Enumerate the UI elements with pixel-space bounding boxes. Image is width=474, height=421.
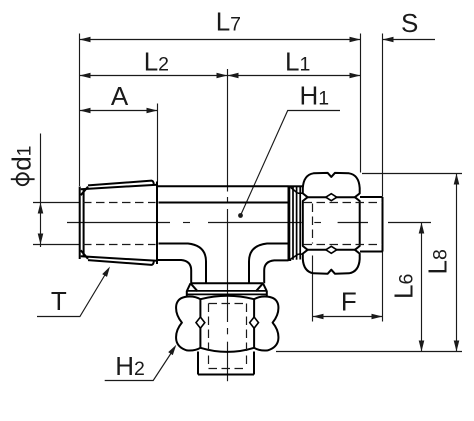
svg-text:A: A: [111, 81, 129, 111]
arrowhead phi-d1 down: [38, 234, 44, 245]
body top edge: [158, 185, 289, 187]
tube stub bottom: [198, 352, 254, 375]
dimension line L8: [456, 174, 458, 352]
dimension line S: [383, 39, 436, 41]
vertical centerline / extension: [227, 69, 229, 381]
leader T: [37, 269, 109, 317]
arrowhead L1 left: [228, 73, 239, 79]
body hex corner line lower with branch fillets: [159, 244, 207, 284]
thread root hidden lines: [83, 203, 156, 245]
hidden thread lines in nut H2: [209, 304, 247, 369]
flange between body and nut H1: [289, 186, 304, 260]
dimension line L7: [80, 39, 361, 41]
horizontal centerline: [67, 222, 368, 224]
nut H1 corner line lower: [307, 249, 356, 251]
arrowhead L2 left: [80, 73, 91, 79]
svg-text:F: F: [341, 286, 357, 316]
dimension line L6: [421, 223, 423, 352]
extension line phi-d1 bottom (y=244.5): [33, 244, 79, 246]
nut H2 outline: [176, 296, 278, 352]
extension line bottom for L6/L8 (y=351.5): [276, 351, 462, 353]
arrowhead L2 right: [217, 73, 228, 79]
arrowhead L6 up: [419, 223, 425, 234]
extension line nut top for L8 (y=173.5): [362, 173, 462, 175]
tube stub right (S): [360, 197, 383, 252]
extension line thread end (x=157.5): [157, 104, 159, 182]
male taper thread T outline: [80, 181, 157, 265]
nut H2 corner line right: [253, 299, 255, 348]
leader arrowhead T: [102, 267, 110, 277]
arrowhead A left: [80, 108, 91, 114]
dimension line F: [313, 316, 383, 318]
svg-text:T: T: [51, 286, 67, 316]
nut H2 diamonds: [196, 317, 259, 328]
dimension line phi-d1 vertical: [40, 134, 42, 248]
arrowhead phi-d1 up: [38, 203, 44, 214]
nut H2 corner line left: [199, 299, 201, 348]
arrowhead L7 left: [80, 37, 91, 43]
extension line tube end (x=382.5): [382, 34, 384, 197]
arrowhead L1 right: [350, 73, 361, 79]
extension line phi-d1 top (y=202.5): [33, 202, 79, 204]
arrowhead F right: [372, 314, 383, 320]
extension line thread engagement for F (x=312.5): [312, 256, 314, 322]
collar above nut H2: [187, 283, 267, 297]
leader arrowhead H2: [168, 345, 176, 355]
extension line nut right face (x=360.5): [360, 34, 362, 173]
dimension line A: [80, 110, 158, 112]
svg-text:S: S: [401, 8, 418, 38]
body outline: [158, 186, 289, 283]
leader H1: [241, 111, 341, 216]
arrowhead L6 down: [419, 341, 425, 352]
arrowhead L8 down: [454, 341, 460, 352]
arrowhead A right: [147, 108, 158, 114]
extension line tube end lower for F: [382, 252, 384, 322]
arrowhead S left: [383, 37, 394, 43]
arrowhead L8 up: [454, 174, 460, 185]
nut H1 corner line upper: [307, 196, 356, 198]
leader dot H1: [238, 213, 243, 218]
nut H1 diamonds: [326, 194, 337, 254]
nut H1 outline: [303, 173, 360, 274]
body hex corner line upper: [159, 202, 289, 204]
arrowhead F left: [313, 314, 324, 320]
extension line left (x=79.5): [79, 34, 81, 187]
body bottom edge with branch fillets: [158, 260, 191, 283]
hidden thread lines in nut H1: [304, 203, 383, 245]
leader H2: [105, 348, 175, 381]
extension line centerline right for L6: [388, 222, 431, 224]
dimension line L2/L1: [80, 75, 361, 77]
arrowhead L7 right: [350, 37, 361, 43]
body end face: [288, 186, 290, 260]
